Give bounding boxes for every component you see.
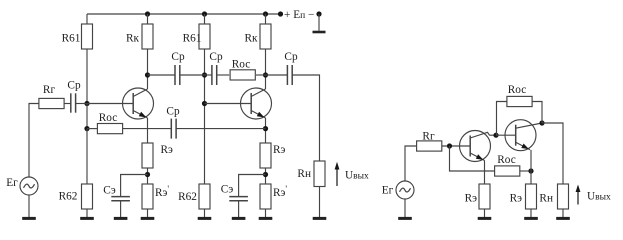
resistor R62 (stage 2 lower bias) (199, 184, 210, 209)
svg-text:Rэ: Rэ (161, 144, 174, 156)
wire base1 lead (87, 103, 133, 105)
transistor VT2 (stage 2) (241, 88, 272, 119)
transistor VT1 (stage 1) (123, 88, 154, 119)
wire top supply rail (87, 13, 281, 15)
svg-text:Rн: Rн (297, 168, 311, 180)
wire Cр2 to base2 column (180, 74, 205, 76)
svg-text:Rос: Rос (99, 112, 117, 124)
wire Roc1 left lead (87, 128, 97, 130)
node collector4 junction dot (539, 120, 544, 125)
resistor Roc (stage 1 feedback) (97, 124, 122, 134)
svg-text:Ср: Ср (67, 80, 81, 92)
svg-text:Rг: Rг (43, 84, 56, 96)
svg-text:Сэ: Сэ (221, 184, 234, 196)
resistor Rэ (VT4) (526, 184, 537, 209)
wire emitter4 down (530, 150, 532, 184)
svg-text:Rэ: Rэ (465, 193, 478, 205)
svg-text:Ср: Ср (284, 51, 298, 63)
wire R61-1 stub from rail (86, 14, 88, 24)
node emitter2 divider junction dot (263, 172, 268, 177)
wire Roc lower left lead (450, 146, 495, 171)
svg-text:Ср: Ср (171, 51, 185, 63)
wire Eг up and to Rг (29, 104, 39, 178)
svg-text:Uвых: Uвых (587, 191, 611, 203)
svg-text:Rг: Rг (422, 131, 435, 143)
wire Cэ2 tap (239, 175, 266, 197)
resistor Roc (right lower) (495, 166, 520, 176)
svg-text:Uвых: Uвых (345, 170, 369, 182)
wire Rг to base3 (442, 145, 470, 147)
ground (R62-1) (80, 209, 94, 218)
wire Cр out to load (292, 75, 319, 161)
ground (Rн left) (313, 187, 327, 219)
svg-text:Eг: Eг (6, 177, 18, 189)
ground (Rэ VT3) (478, 209, 492, 218)
resistor Rэ (VT3) (479, 184, 490, 209)
svg-text:Rэ': Rэ' (155, 184, 169, 199)
node rail-R61-2 junction dot (202, 11, 207, 16)
wire Cр input to base node (76, 103, 87, 105)
node collector2 junction dot (263, 72, 268, 77)
node emitter4 feedback junction dot (528, 168, 533, 173)
wire Rk2 stub (265, 14, 267, 24)
svg-text:Rэ: Rэ (510, 193, 523, 205)
capacitor Cэ (stage 1) (111, 197, 130, 201)
resistor R61 (stage 2 upper bias) (199, 24, 210, 49)
svg-text:Eг: Eг (382, 185, 394, 197)
AC source Eг (right) (396, 181, 414, 199)
ground (Eг right) (398, 199, 412, 218)
node supply plus terminal dot (278, 11, 283, 16)
resistor Rк (stage 1 collector) (142, 24, 153, 49)
svg-text:R62: R62 (178, 191, 197, 203)
wire R61-2 bottom through base2 node to R62-2 (204, 49, 206, 184)
svg-text:R61: R61 (183, 33, 202, 45)
node emitter2 junction dot (263, 126, 268, 131)
wire R61-1 bottom to base node (86, 49, 88, 104)
wire Cр3 to Roc2 (217, 74, 230, 76)
resistor R61 (stage 1 upper bias) (82, 24, 93, 49)
node rail-Rk1 junction dot (145, 11, 150, 16)
node base3 junction dot (447, 143, 452, 148)
resistor Rг (left) (39, 98, 64, 108)
ground (Rэ'-2) (259, 209, 273, 218)
resistor Rэ' (stage 2) (260, 184, 271, 209)
svg-text:Rос: Rос (508, 84, 526, 96)
ground (Rэ'-1) (141, 209, 155, 218)
svg-text:R62: R62 (59, 191, 78, 203)
ground (Rн right) (556, 209, 570, 218)
wire R61-2 stub (204, 14, 206, 24)
resistor Roc (right upper) (507, 96, 532, 106)
ground (supply minus bar) (313, 31, 326, 34)
node coupling junction dot (202, 72, 207, 77)
wire Eг right up to Rг (405, 146, 417, 181)
ground (Eг left) (22, 195, 36, 218)
node Roc1 left junction dot (84, 126, 89, 131)
arrow Uвых (right) (576, 185, 581, 205)
wire Rk1 stub (147, 14, 149, 24)
svg-text:Rэ: Rэ (273, 144, 286, 156)
transistor VT3 (right first) (460, 131, 497, 162)
svg-text:Rк: Rк (126, 33, 140, 45)
capacitor Cр feedback series (stage 2) (212, 65, 217, 85)
wire Rk1 to collector (147, 49, 149, 89)
resistor Rг (right) (417, 141, 442, 151)
ground (Cэ-1) (114, 201, 128, 219)
ground (Cэ-2) (232, 201, 246, 219)
capacitor Cр feedback series (stage 1) (171, 119, 176, 139)
capacitor Cэ (stage 2) (229, 197, 248, 201)
capacitor Cр input (left) (71, 93, 76, 112)
transistor VT4 (right second) (505, 120, 542, 151)
wire down to R62-1 (86, 129, 88, 184)
wire Rг to Cр input (64, 103, 71, 105)
resistor Rэ' (stage 1) (142, 184, 153, 209)
svg-text:+ Еп −: + Еп − (284, 9, 314, 21)
node base1 junction dot (84, 101, 89, 106)
svg-text:Rос: Rос (232, 59, 250, 71)
resistor R62 (stage 1 lower bias) (82, 184, 93, 209)
resistor Rк (stage 2 collector) (260, 24, 271, 49)
wire base2 lead (205, 103, 252, 105)
svg-text:Rн: Rн (539, 193, 553, 205)
node collector3/base4 junction dot (493, 133, 498, 138)
wire output to Rн right (542, 123, 563, 184)
svg-text:Ср: Ср (166, 106, 180, 118)
wire Cэ1 tap (121, 175, 148, 197)
node collector1 junction dot (145, 72, 150, 77)
ground (Rэ VT4) (524, 209, 538, 218)
wire emitter1 down to Rэ1 (147, 118, 149, 143)
resistor Rэ (stage 1) (142, 143, 153, 168)
svg-text:Ср: Ср (209, 51, 223, 63)
svg-text:Rэ': Rэ' (273, 184, 287, 199)
arrow Uвых (left) (335, 162, 340, 186)
wire Cр mid to emitter2 node (176, 128, 265, 130)
wire Roc upper right lead (532, 102, 542, 124)
wire collector1 to Cр2 (148, 74, 176, 76)
svg-text:Rк: Rк (244, 33, 258, 45)
svg-text:Rос: Rос (497, 154, 515, 166)
node emitter1 divider junction dot (145, 172, 150, 177)
wire base node down to Roc tap (86, 104, 88, 129)
wire collector2 to Cр out (266, 74, 288, 76)
node base2 junction dot (202, 101, 207, 106)
node rail-Rk2 junction dot (263, 11, 268, 16)
wire emitter2 down (265, 118, 267, 143)
resistor Roc (stage 2) (230, 70, 255, 80)
capacitor Cр interstage (175, 65, 180, 85)
wire base4 lead (496, 134, 516, 136)
wire Roc lower right lead (520, 170, 531, 172)
resistor Rн (left load) (314, 161, 325, 187)
capacitor Cр output (287, 65, 292, 85)
wire emitter3 down (484, 160, 486, 184)
wire Roc2 to collector2 node (256, 74, 266, 76)
svg-text:Сэ: Сэ (103, 185, 116, 197)
svg-text:R61: R61 (62, 33, 81, 45)
AC source Eг (left) (20, 177, 38, 195)
wire supply minus lead (318, 14, 320, 31)
wire Roc1 to Cр mid (123, 128, 172, 130)
resistor Rэ (stage 2) (260, 143, 271, 168)
wire Rэ1 to Rэ'1 (147, 168, 149, 184)
resistor Rн (right load) (558, 184, 569, 209)
wire Rэ2 to Rэ'2 (265, 168, 267, 184)
node supply minus terminal dot (316, 11, 321, 16)
wire base2 node to Cр3 (205, 74, 212, 76)
wire Roc upper left lead (497, 102, 507, 136)
ground (R62-2) (198, 209, 212, 218)
wire Rk2 to collector2 (265, 49, 267, 89)
